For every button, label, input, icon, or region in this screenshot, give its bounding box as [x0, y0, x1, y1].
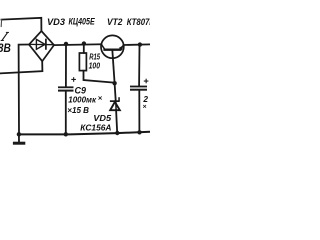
label x15 V — [67, 106, 89, 115]
wire R15 branch from rail — [83, 44, 85, 53]
svg-text:×: × — [143, 104, 147, 111]
ground stub — [18, 134, 20, 142]
transistor VT2 emitter slant — [120, 45, 124, 49]
wire top AC from transformer to bridge top vertex — [2, 18, 42, 31]
wire top rail: bridge plus output to transistor collector — [54, 43, 101, 46]
label C9 — [75, 86, 87, 96]
svg-text:R15: R15 — [89, 52, 100, 61]
wire bottom ground rail — [19, 132, 150, 135]
label 8 V — [0, 43, 11, 55]
label VT2 KT807 — [107, 17, 155, 27]
junction node emitter rail and right cap — [138, 42, 142, 46]
wire C9 branch top — [65, 44, 67, 87]
wire right capacitor bottom lead — [138, 91, 140, 133]
ground symbol bar — [13, 142, 25, 145]
svg-text:×: × — [98, 95, 102, 102]
zener VD5 cathode bar with hook — [110, 97, 120, 102]
label output cap value x — [143, 104, 147, 111]
diode inside bridge — [30, 39, 54, 49]
bridge rectifier VD3 diamond — [29, 31, 54, 61]
wire bridge bottom vertex to left edge (AC return) — [0, 61, 42, 73]
wire bridge left vertex to left vertical (minus branch to ground) — [19, 45, 29, 135]
label output cap value 2 — [142, 95, 148, 104]
svg-text:VD5: VD5 — [93, 114, 111, 123]
label raised multiplication sign — [98, 95, 102, 102]
svg-text:C9: C9 — [75, 86, 87, 96]
transistor VT2 base bar — [105, 49, 121, 51]
junction node base R15 zener — [112, 81, 116, 85]
resistor R15 body — [79, 53, 86, 71]
svg-text:VD3: VD3 — [47, 17, 65, 27]
junction node ground rail and right cap — [137, 130, 141, 134]
label 100 — [89, 62, 101, 71]
junction node ground rail and C9 — [64, 132, 68, 136]
capacitor C9 plates — [58, 86, 74, 91]
junction node ground rail and zener — [115, 131, 119, 135]
transistor VT2 emitter arrow — [119, 45, 123, 50]
label VD3 KC405E — [47, 17, 95, 27]
wire emitter rail to right edge — [124, 43, 150, 46]
wire right capacitor top lead — [138, 45, 140, 86]
label R15 — [89, 52, 100, 61]
label winding I (hand drawn italic serif) — [1, 32, 9, 41]
wire zener VD5 top lead — [115, 83, 117, 110]
transistor VT2 collector slant — [101, 44, 104, 49]
junction node ground — [17, 132, 21, 136]
svg-text:VT2: VT2 — [107, 17, 122, 27]
svg-text:100: 100 — [89, 62, 101, 71]
svg-text:КТ807Б: КТ807Б — [127, 17, 150, 27]
label 1000 mk x — [68, 95, 97, 104]
wire R15 bottom to base node — [84, 71, 115, 83]
wire C9 branch bottom — [65, 92, 67, 135]
zener VD5 triangle — [110, 102, 120, 110]
junction node bridge plus and C9 — [64, 42, 68, 46]
svg-text:1000мк: 1000мк — [68, 95, 97, 104]
svg-text:8В: 8В — [0, 43, 11, 55]
svg-text:КС156А: КС156А — [80, 124, 111, 133]
output capacitor polarity plus — [144, 79, 149, 84]
output capacitor plates — [130, 86, 147, 91]
svg-text:КЦ405Е: КЦ405Е — [69, 17, 96, 27]
transistor VT2 circle — [101, 35, 124, 58]
label VD5 — [93, 114, 111, 123]
transformer edge stub at left — [0, 20, 2, 27]
transistor VT2 base lead down — [112, 51, 114, 83]
capacitor C9 polarity plus — [71, 77, 76, 82]
svg-text:×15 В: ×15 В — [67, 106, 89, 115]
label KS156A — [80, 124, 111, 133]
wire zener VD5 bottom lead — [116, 110, 117, 133]
junction node rail and R15 — [82, 41, 86, 45]
